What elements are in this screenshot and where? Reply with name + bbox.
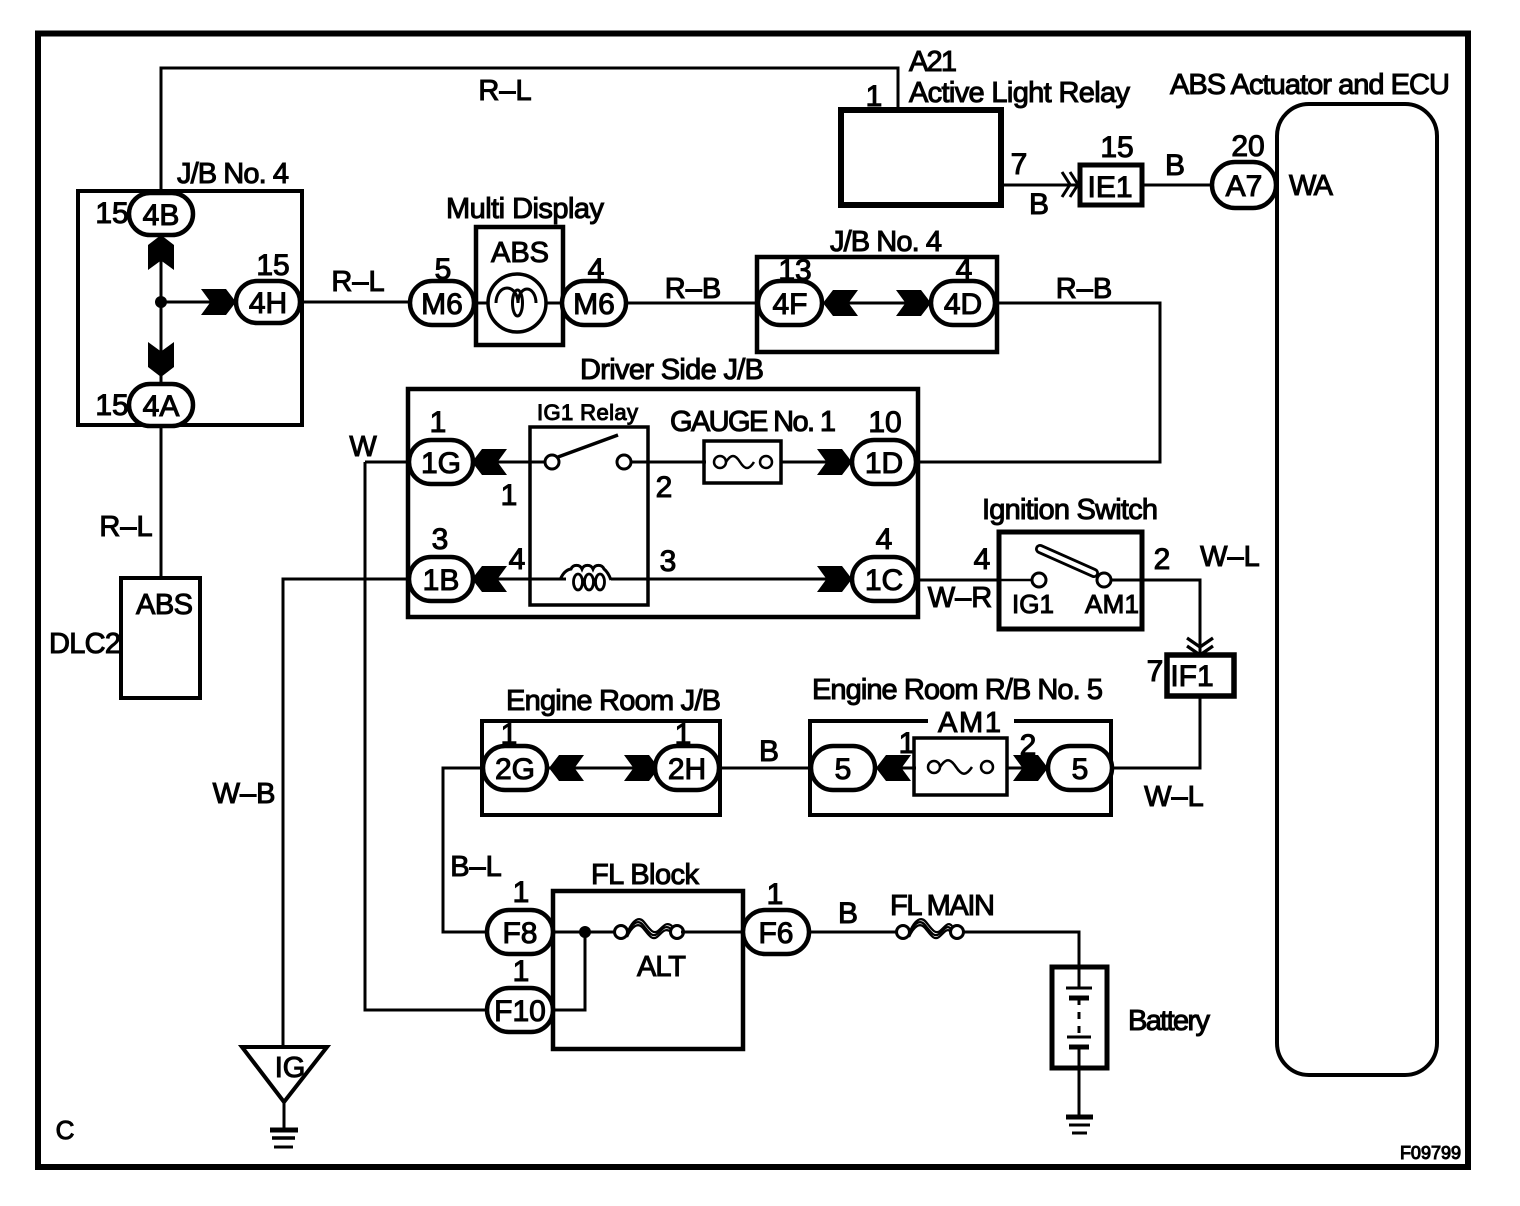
- fuse symbol: [714, 456, 726, 468]
- svg-text:M6: M6: [573, 288, 615, 321]
- wire fuse to 5 right: [1007, 767, 1050, 770]
- svg-text:3: 3: [660, 545, 677, 578]
- relay blade: [558, 435, 618, 457]
- svg-text:4A: 4A: [143, 390, 180, 423]
- Multi Display box: [476, 227, 563, 345]
- wire W into 1G: [365, 461, 411, 464]
- ground battery: [1066, 1115, 1093, 1120]
- svg-text:IF1: IF1: [1170, 660, 1213, 693]
- relay switch contacts: [545, 455, 559, 469]
- wire 5 to fuse: [875, 767, 916, 770]
- svg-text:4F: 4F: [772, 288, 807, 321]
- svg-text:F6: F6: [758, 917, 793, 950]
- svg-text:GAUGE No. 1: GAUGE No. 1: [670, 406, 836, 438]
- fuse GAUGE No.1 box: [704, 441, 781, 483]
- Engine Room J/B box: [482, 721, 720, 815]
- svg-text:4: 4: [974, 543, 991, 576]
- svg-text:2: 2: [1154, 543, 1171, 576]
- connector 2G: [483, 746, 547, 790]
- svg-text:DLC2: DLC2: [49, 628, 121, 660]
- svg-text:Multi Display: Multi Display: [446, 193, 605, 225]
- svg-text:1: 1: [767, 878, 784, 911]
- wire 4B to 4A vertical: [160, 234, 163, 384]
- wire fuse to 1D: [781, 461, 854, 464]
- DLC2 ABS box: [121, 578, 200, 698]
- ground IG: [270, 1128, 298, 1133]
- svg-text:2H: 2H: [668, 753, 706, 786]
- fuse AM1 box: [914, 738, 1007, 795]
- wire triangle to ground: [283, 1102, 286, 1129]
- wire battery to ground: [1078, 1068, 1081, 1116]
- connector 1B: [409, 557, 473, 601]
- svg-text:J/B No. 4: J/B No. 4: [830, 226, 942, 258]
- svg-text:J/B No. 4: J/B No. 4: [177, 158, 289, 190]
- wire 4H to M6: [300, 301, 412, 304]
- svg-text:C: C: [56, 1115, 75, 1145]
- svg-text:IG1: IG1: [1012, 589, 1054, 619]
- connector 4A: [129, 384, 193, 426]
- svg-text:ABS Actuator and ECU: ABS Actuator and ECU: [1170, 69, 1450, 101]
- svg-text:IG: IG: [275, 1052, 306, 1084]
- svg-text:A21: A21: [909, 46, 957, 78]
- connector IF1 box: [1167, 655, 1234, 696]
- svg-text:AM1: AM1: [938, 707, 1001, 739]
- double chevron down: [1187, 638, 1213, 655]
- svg-text:7: 7: [1147, 655, 1164, 688]
- svg-text:ALT: ALT: [637, 951, 686, 983]
- double chevron right: [1062, 172, 1078, 197]
- wire 1B row left to W-B: [283, 579, 411, 1046]
- svg-text:F09799: F09799: [1400, 1143, 1461, 1163]
- svg-text:4D: 4D: [944, 288, 982, 321]
- battery internals: [1078, 967, 1081, 988]
- switch blade: [1040, 549, 1094, 573]
- arrow right toward 2H: [624, 755, 659, 781]
- svg-text:4: 4: [509, 543, 526, 576]
- contact IG1: [1032, 573, 1046, 587]
- svg-text:15: 15: [256, 249, 289, 282]
- connector A7: [1212, 162, 1276, 208]
- svg-text:B–L: B–L: [450, 851, 502, 883]
- Driver Side J/B box: [408, 389, 918, 617]
- svg-text:20: 20: [1231, 130, 1264, 163]
- connector M6 right: [562, 281, 626, 325]
- svg-text:1B: 1B: [423, 564, 460, 597]
- svg-text:4: 4: [588, 253, 605, 286]
- svg-text:M6: M6: [421, 288, 463, 321]
- J/B No. 4 second block: [757, 257, 997, 352]
- svg-text:ABS: ABS: [491, 237, 549, 269]
- lamp symbol: [488, 274, 546, 332]
- fuse ALT fusible link: [615, 926, 628, 939]
- arrow left toward 4F: [823, 290, 858, 316]
- arrow left into 5: [876, 755, 911, 781]
- svg-text:10: 10: [868, 406, 901, 439]
- wire M6 to 4F: [626, 302, 760, 305]
- arrow right into 1D: [817, 449, 852, 475]
- connector 5 right: [1048, 746, 1112, 790]
- arrow down: [148, 342, 174, 377]
- svg-text:R–L: R–L: [99, 511, 152, 543]
- wire 1B to coil: [473, 578, 566, 581]
- wire 2G to 2H: [547, 767, 655, 770]
- fuse FL MAIN fusible link: [897, 926, 910, 939]
- svg-text:1: 1: [866, 80, 883, 113]
- svg-text:1: 1: [513, 955, 530, 988]
- arrow right to 4H: [201, 289, 236, 315]
- svg-text:F8: F8: [502, 917, 537, 950]
- connector 5 left: [811, 746, 875, 790]
- wire F10 to junction: [551, 937, 585, 1010]
- wire W vertical to F10: [365, 462, 489, 1010]
- svg-text:4B: 4B: [143, 199, 180, 232]
- ABS Actuator and ECU rounded block: [1277, 104, 1437, 1075]
- wire IE1 to A7: [1142, 184, 1213, 187]
- wire 1G to relay contact: [473, 461, 556, 464]
- svg-text:ABS: ABS: [136, 589, 193, 621]
- svg-text:1C: 1C: [865, 564, 903, 597]
- svg-text:1: 1: [513, 876, 530, 909]
- wire 2H to 5: [719, 767, 813, 770]
- arrow left into 1B: [472, 566, 507, 592]
- wire 1C to ignition switch: [916, 579, 1001, 582]
- connector F8: [487, 910, 553, 954]
- svg-text:5: 5: [835, 753, 852, 786]
- svg-text:B: B: [1165, 149, 1185, 182]
- svg-text:B: B: [759, 735, 779, 768]
- arrow left into 1G: [472, 449, 507, 475]
- arrow up: [148, 235, 174, 270]
- connector 4F: [758, 281, 822, 325]
- connector 1C: [852, 557, 916, 601]
- svg-text:WA: WA: [1289, 170, 1334, 202]
- svg-text:A7: A7: [1226, 170, 1263, 203]
- wire inside to IG1 contact: [999, 579, 1032, 582]
- wire through multi display: [474, 302, 497, 305]
- relay A21 box: [841, 110, 1001, 205]
- svg-text:R–L: R–L: [331, 266, 384, 298]
- svg-text:15: 15: [95, 197, 128, 230]
- connector F6: [743, 910, 809, 954]
- IG1 Relay box: [530, 427, 648, 605]
- svg-text:15: 15: [1100, 131, 1133, 164]
- fuse symbol: [928, 761, 940, 773]
- junction dot: [155, 296, 167, 308]
- svg-text:4: 4: [956, 253, 973, 286]
- svg-text:Engine Room J/B: Engine Room J/B: [506, 685, 721, 717]
- svg-text:AM1: AM1: [1085, 589, 1139, 619]
- wire A21 to IE1: [1001, 184, 1078, 187]
- wire 4F to 4D: [822, 302, 931, 305]
- wire FL MAIN to battery: [962, 932, 1079, 967]
- svg-text:Ignition Switch: Ignition Switch: [982, 494, 1158, 526]
- wire coil to 1C: [611, 578, 854, 581]
- J/B No. 4 left block: [78, 191, 302, 425]
- svg-text:R–B: R–B: [665, 273, 721, 305]
- wire 4A to DLC2: [160, 426, 163, 578]
- wire contact to fuse: [631, 461, 706, 464]
- svg-text:1D: 1D: [865, 447, 903, 480]
- connector 1G: [409, 440, 473, 484]
- connector 1D: [852, 440, 916, 484]
- svg-text:IE1: IE1: [1087, 171, 1132, 204]
- contact AM1: [1097, 573, 1111, 587]
- svg-text:4H: 4H: [249, 287, 287, 320]
- FL Block box: [553, 891, 743, 1049]
- arrow right into 1C: [817, 566, 852, 592]
- svg-text:Active Light Relay: Active Light Relay: [909, 77, 1131, 109]
- relay coil: [560, 565, 611, 580]
- connector 4B: [129, 193, 193, 235]
- connector M6 left: [410, 281, 474, 325]
- Ignition Switch box: [999, 532, 1142, 629]
- svg-text:R–B: R–B: [1056, 273, 1112, 305]
- svg-text:1G: 1G: [421, 447, 461, 480]
- svg-text:W–B: W–B: [213, 778, 276, 810]
- svg-text:IG1 Relay: IG1 Relay: [537, 400, 638, 425]
- Engine Room R/B No. 5 box: [810, 721, 1111, 815]
- svg-text:R–L: R–L: [478, 75, 531, 107]
- svg-text:15: 15: [95, 389, 128, 422]
- svg-text:B: B: [838, 897, 858, 930]
- svg-text:W: W: [349, 431, 377, 463]
- connector F10: [487, 988, 553, 1032]
- wire 2G left down to F8: [443, 768, 489, 932]
- connector IE1 box: [1080, 165, 1142, 205]
- arrow right into 5: [1013, 755, 1048, 781]
- svg-text:F10: F10: [494, 995, 546, 1028]
- wire AM1 contact out right and down to IF1: [1111, 580, 1200, 657]
- svg-text:13: 13: [778, 254, 811, 287]
- svg-text:W–L: W–L: [1144, 781, 1204, 813]
- svg-text:4: 4: [876, 523, 893, 556]
- connector 2H: [655, 746, 719, 790]
- svg-text:1: 1: [501, 479, 518, 512]
- arrow right toward 4D: [896, 290, 931, 316]
- connector 4H: [236, 281, 300, 323]
- wire IF1 down to 5: [1114, 695, 1200, 768]
- wire F6 to FL MAIN: [809, 931, 898, 934]
- IG ground triangle: [242, 1047, 327, 1102]
- wire fuse to F6: [681, 931, 744, 934]
- svg-text:W–L: W–L: [1200, 541, 1260, 573]
- battery box: [1052, 967, 1107, 1068]
- wire 4D right down to 1D: [918, 303, 1160, 462]
- svg-text:5: 5: [435, 253, 452, 286]
- wire to 4H: [161, 301, 240, 304]
- svg-text:2: 2: [1020, 729, 1037, 762]
- svg-text:5: 5: [1072, 753, 1089, 786]
- svg-text:2: 2: [656, 471, 673, 504]
- svg-text:FL Block: FL Block: [591, 859, 700, 891]
- wire R-L top from J/B No.4 up and right to A21 pin 1: [161, 68, 898, 192]
- svg-text:B: B: [1029, 188, 1049, 221]
- svg-text:2G: 2G: [495, 753, 535, 786]
- svg-text:1: 1: [430, 406, 447, 439]
- svg-text:3: 3: [432, 523, 449, 556]
- label AM1 on box top: [928, 712, 1014, 732]
- junction dot: [579, 926, 591, 938]
- svg-text:Battery: Battery: [1128, 1005, 1211, 1037]
- arrow left toward 2G: [549, 755, 584, 781]
- svg-text:7: 7: [1011, 148, 1028, 181]
- svg-text:Engine Room R/B No. 5: Engine Room R/B No. 5: [812, 674, 1103, 706]
- svg-text:W–R: W–R: [928, 582, 992, 614]
- svg-text:Driver Side J/B: Driver Side J/B: [580, 354, 764, 386]
- svg-text:FL MAIN: FL MAIN: [890, 890, 995, 922]
- connector 4D: [931, 281, 995, 325]
- svg-text:1: 1: [501, 718, 518, 751]
- svg-text:1: 1: [675, 718, 692, 751]
- wire F8 into block: [551, 931, 620, 934]
